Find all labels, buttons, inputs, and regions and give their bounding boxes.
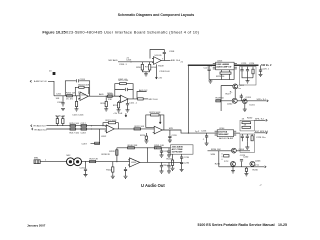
svg-text:C217: C217 — [81, 123, 87, 125]
ground in box — [247, 78, 249, 81]
resistor R211 body — [120, 83, 127, 85]
svg-text:7052A AMP: 7052A AMP — [218, 133, 229, 136]
svg-text:MK1: MK1 — [34, 157, 39, 159]
svg-text:SPK: SPK — [169, 128, 174, 130]
svg-text:C234: C234 — [162, 165, 168, 167]
wire EXT out — [254, 119, 265, 121]
ground below R236 — [244, 174, 248, 176]
svg-text:C201: C201 — [56, 94, 62, 96]
ground below R242 — [111, 176, 115, 178]
ground below R212 — [117, 110, 121, 112]
wire lower row — [219, 166, 248, 168]
wire U201B output — [128, 92, 146, 99]
resistor R216 inline upper — [70, 125, 76, 127]
svg-text:AUDIO AMP 1W: AUDIO AMP 1W — [216, 65, 231, 68]
wire jack to opamp — [82, 161, 130, 163]
svg-text:U Audio Out: U Audio Out — [141, 183, 165, 188]
resistor R221 body — [108, 122, 115, 124]
ground below rail — [144, 74, 148, 76]
transistor Q203 inner — [244, 100, 246, 103]
svg-text:SW B+ 2: SW B+ 2 — [261, 63, 272, 67]
op-amp U202A — [105, 125, 115, 133]
wire U202B output — [162, 130, 217, 133]
node junction lower — [91, 128, 92, 129]
node junction top rail — [147, 147, 148, 148]
svg-text:AUD 9-2: AUD 9-2 — [139, 89, 148, 92]
svg-text:Q201: Q201 — [239, 85, 245, 87]
svg-text:C202: C202 — [57, 102, 63, 104]
transistor Q202 inner — [234, 99, 236, 103]
capacitor C221 branch from bus — [208, 65, 210, 69]
resistor R235 body — [224, 155, 229, 157]
resistor R221 feedback — [103, 123, 118, 129]
resistor R204 body — [79, 86, 84, 88]
wire R207 R208 bottom rail — [142, 70, 149, 74]
resistor R208 branch — [149, 62, 151, 65]
svg-text:C218: C218 — [81, 133, 87, 135]
capacitor C232 body — [124, 169, 127, 176]
resistor R232 in box — [242, 126, 251, 128]
svg-text:SPK- 9-2: SPK- 9-2 — [255, 118, 265, 120]
wire top rail vertical — [116, 148, 118, 162]
op-amp U201B — [119, 95, 128, 102]
capacitor C239 branch — [240, 94, 242, 101]
svg-text:R208: R208 — [151, 67, 157, 69]
ground below C202 — [61, 108, 65, 110]
transistor Q203 — [243, 99, 248, 104]
capacitor C210 inner loop — [115, 89, 133, 91]
wire U201C output — [161, 60, 170, 62]
transistor Q206 — [250, 161, 255, 166]
svg-text:R217 100: R217 100 — [70, 133, 80, 135]
svg-text:023-5800-480/485 User Interfac: 023-5800-480/485 User Interface Board Sc… — [66, 29, 200, 34]
node MIC_HI input arrow — [30, 80, 31, 82]
wire Q203 to ground — [244, 104, 246, 109]
ground below R224 — [144, 141, 148, 143]
svg-text:MIC 10-6: MIC 10-6 — [149, 99, 159, 101]
svg-text:10K: 10K — [56, 98, 60, 100]
svg-text:Schematic Diagrams and Compone: Schematic Diagrams and Component Layouts — [118, 13, 194, 17]
svg-text:C206 .1: C206 .1 — [119, 64, 127, 66]
capacitor C239 body — [240, 96, 243, 97]
svg-text:A MIC HI 1-8: A MIC HI 1-8 — [34, 80, 47, 83]
resistor R226 inline — [216, 100, 221, 102]
ground below R203 — [75, 109, 79, 111]
wire branch down — [91, 129, 100, 143]
capacitor C237 body — [160, 151, 163, 155]
transistor Q202 — [232, 98, 237, 103]
svg-text:1K .5%: 1K .5% — [66, 99, 73, 101]
capacitor C236 body — [180, 162, 183, 169]
svg-text:R238 2K: R238 2K — [102, 154, 111, 156]
resistor R229 in box — [252, 69, 254, 74]
IC U204 pins — [215, 131, 237, 135]
resistor R203 branch — [76, 96, 78, 101]
svg-text:R237 2K: R237 2K — [90, 158, 99, 160]
wire SW_B+ bus — [189, 64, 259, 66]
svg-text:C235: C235 — [184, 157, 190, 159]
node junction upper — [91, 125, 92, 126]
resistor R242 branch — [112, 162, 114, 167]
svg-text:Figure 10.25: Figure 10.25 — [42, 29, 66, 34]
capacitor C230 left — [241, 162, 243, 167]
ground below C232 — [124, 176, 128, 178]
svg-text:SPK+ 9-1: SPK+ 9-1 — [257, 99, 267, 101]
svg-text:R234 10K: R234 10K — [211, 149, 221, 151]
wire R213 to net — [143, 98, 148, 100]
svg-text:U201D: U201D — [155, 55, 162, 57]
svg-text:AUDIO PA 8W: AUDIO PA 8W — [219, 137, 234, 140]
component MK201 inner dot — [69, 160, 72, 163]
svg-text:Q202: Q202 — [227, 104, 233, 106]
capacitor C208 feedback loop — [150, 50, 164, 59]
capacitor C223 in box — [242, 67, 253, 78]
node junction dot — [106, 96, 107, 97]
capacitor C224 in box — [247, 67, 249, 78]
transistor Q201 — [233, 84, 238, 89]
capacitor C225 outside — [260, 65, 262, 69]
wire bus drop long vertical — [188, 65, 190, 133]
resistor R208 body — [149, 64, 151, 70]
wire U205 output — [140, 161, 182, 163]
ground in filter box — [246, 141, 248, 147]
wire shutdown row — [208, 150, 251, 152]
capacitor C234 branch — [168, 162, 170, 165]
wire Q205 ground — [232, 167, 234, 171]
resistor R212 stub — [118, 108, 120, 110]
IC U203 audio PA box — [216, 62, 235, 70]
svg-text:C220: C220 — [172, 135, 178, 137]
capacitor C238 branch — [161, 162, 163, 165]
node TP201 pad — [53, 72, 56, 75]
ground below C211 — [126, 110, 130, 112]
capacitor C233 top branch — [168, 148, 170, 151]
op-amp U205 — [128, 158, 140, 167]
svg-text:C203: C203 — [80, 79, 86, 81]
wire bottom rail — [209, 70, 234, 80]
capacitor C227 body — [241, 136, 244, 141]
wire MIC_HI to corner — [48, 81, 54, 96]
svg-text:R239: R239 — [109, 151, 115, 153]
resistor R243 below box — [171, 160, 173, 165]
capacitor C221 body — [208, 69, 211, 79]
ground at rail — [209, 80, 211, 81]
resistor R205 inline — [107, 95, 112, 97]
svg-text:C228 10u: C228 10u — [256, 137, 266, 139]
resistor R202 body — [67, 95, 73, 97]
resistor R225 body — [220, 72, 231, 74]
dashed link U204 — [221, 153, 223, 160]
svg-text:+5V: +5V — [158, 78, 162, 80]
resistor R224 branch — [145, 133, 147, 136]
capacitor C228 body — [246, 136, 249, 141]
node out arrow right — [267, 100, 268, 102]
svg-text:RX AUD 8-3: RX AUD 8-3 — [34, 125, 47, 128]
svg-text:R225 10: R225 10 — [216, 76, 225, 78]
ground below C226 — [205, 143, 209, 145]
wire pair lower — [46, 128, 106, 130]
ground below C231 — [84, 175, 88, 177]
component MK202 mic element right — [74, 158, 82, 166]
box resistor pack — [240, 120, 254, 131]
wire U201B lower input — [118, 101, 120, 102]
resistor R220 inline branch — [95, 142, 100, 144]
node lower arrow — [266, 132, 267, 134]
ground below C234 — [167, 171, 171, 173]
component MK202 inner dot — [76, 160, 79, 163]
capacitor C203 feedback outer loop — [65, 81, 89, 96]
resistor R211 feedback loop — [115, 84, 133, 99]
resistor R242 stub — [112, 172, 114, 176]
svg-text:C221: C221 — [204, 68, 210, 70]
svg-text:R228 10: R228 10 — [216, 97, 225, 99]
op-amp U201C — [152, 57, 161, 65]
svg-text:C230: C230 — [243, 157, 249, 159]
resistor R215 stub — [62, 117, 65, 126]
svg-text:DTC: DTC — [224, 161, 229, 163]
resistor R206 stub — [105, 107, 107, 109]
node junction top rail2 — [156, 147, 157, 148]
ground below Q203 — [243, 109, 247, 111]
wire U202A output — [114, 128, 154, 130]
svg-text:R223 100K: R223 100K — [150, 112, 161, 114]
svg-text:C211 .1: C211 .1 — [129, 102, 137, 104]
svg-text:U202: U202 — [101, 136, 107, 138]
transistor Q201 inner — [234, 85, 236, 89]
svg-text:U201: U201 — [81, 95, 87, 97]
transistor Q204 inner — [233, 149, 235, 152]
capacitor C224 body — [246, 70, 249, 71]
ground below C225 — [259, 74, 263, 76]
capacitor C220 body — [168, 136, 171, 140]
resistor R222 inline — [134, 128, 141, 130]
resistor R213 inline — [138, 98, 144, 100]
transistor Q205 — [231, 162, 236, 167]
svg-text:R202 10K: R202 10K — [66, 92, 76, 94]
svg-text:SDN: SDN — [211, 154, 216, 156]
capacitor C227 in box — [241, 134, 243, 136]
svg-text:R243: R243 — [167, 159, 173, 161]
svg-text:C225 .1: C225 .1 — [262, 69, 270, 71]
resistor R239 on vertical — [116, 150, 118, 155]
ground symbol filter — [245, 147, 249, 149]
capacitor C202 branch — [62, 96, 64, 102]
svg-text:16 PIN SMT: 16 PIN SMT — [172, 152, 184, 154]
transistor Q206 inner — [251, 162, 253, 166]
wire Q206 row — [248, 165, 264, 167]
svg-text:R209: R209 — [158, 65, 164, 67]
svg-text:R205: R205 — [107, 93, 113, 95]
capacitor C237 top branch — [161, 148, 163, 151]
svg-text:January 2007: January 2007 — [27, 223, 46, 227]
capacitor C231 body — [84, 169, 87, 174]
svg-text:C206: C206 — [126, 59, 132, 61]
wire pair upper — [46, 125, 106, 127]
wire to Q201 — [221, 86, 233, 112]
component FL201 mic filter — [34, 160, 40, 164]
svg-text:R221 100K: R221 100K — [106, 120, 117, 122]
svg-text:PTT: PTT — [255, 165, 260, 167]
capacitor C226 branch — [206, 133, 208, 135]
wire R236 ground — [245, 167, 247, 174]
op-amp U202B — [153, 126, 163, 134]
svg-text:C223: C223 — [241, 63, 247, 65]
resistor R214 pullup body — [56, 119, 58, 124]
resistor R233 in box — [251, 136, 253, 141]
supply arrow mid — [125, 113, 127, 117]
resistor R237 inline — [90, 161, 96, 163]
capacitor C233 body — [167, 151, 170, 155]
capacitor C202 body — [61, 103, 64, 107]
resistor R231 in box — [242, 122, 251, 124]
ground below C237 — [160, 155, 164, 157]
wire emitter row — [216, 89, 267, 101]
svg-text:C224: C224 — [249, 63, 255, 65]
resistor R236 branch — [245, 168, 247, 171]
wire top feedback rail — [117, 147, 171, 149]
svg-text:R227: R227 — [226, 93, 232, 95]
svg-text:R207: R207 — [136, 67, 142, 69]
svg-text:MIC: MIC — [67, 155, 71, 157]
resistor R219 inline lower2 — [81, 128, 87, 130]
wire MIC_AUD rail — [118, 61, 154, 63]
svg-text:C233: C233 — [163, 151, 169, 153]
wire U1A output — [88, 95, 120, 97]
resistor R223 body — [151, 114, 159, 116]
capacitor C231 branch — [85, 162, 87, 169]
ground below Q205 — [231, 171, 235, 173]
capacitor C211 body — [126, 104, 129, 110]
svg-text:Q204: Q204 — [239, 149, 245, 151]
ground symbol box — [246, 81, 250, 83]
svg-text:U203: U203 — [217, 61, 223, 63]
svg-text:Q203: Q203 — [246, 97, 252, 99]
ground below R206 — [104, 109, 108, 111]
resistor R206 branch — [105, 96, 107, 101]
svg-text:R222 10K: R222 10K — [135, 126, 145, 128]
node VOL_LO arrow — [32, 128, 33, 130]
power arrow below U201C — [156, 64, 158, 79]
capacitor C220 branch — [169, 130, 171, 136]
ground below C220 — [168, 140, 172, 142]
capacitor C235 below box — [181, 154, 183, 156]
resistor R223 feedback loop — [146, 115, 164, 130]
component MK201 mic element left — [67, 158, 75, 166]
svg-text:RX AUD 8-4: RX AUD 8-4 — [35, 128, 48, 131]
capacitor C223 body — [240, 70, 243, 71]
resistor R207 body — [141, 64, 143, 70]
resistor R242 body — [112, 167, 114, 172]
resistor R240 inline top — [128, 147, 135, 149]
capacitor C238 body — [160, 166, 163, 171]
supply arrow U202B — [159, 115, 161, 124]
capacitor C210 body — [125, 88, 127, 91]
wire branch down — [218, 151, 220, 167]
capacitor C225 body — [259, 70, 262, 74]
box output filter — [240, 134, 255, 152]
svg-text:R211 33K: R211 33K — [119, 80, 129, 82]
svg-text:C208: C208 — [169, 51, 175, 53]
svg-text:+5V 10-8: +5V 10-8 — [113, 113, 123, 115]
node lower arrow — [265, 166, 266, 168]
node junction mic — [85, 161, 86, 162]
resistor R218 inline upper2 — [81, 125, 87, 127]
svg-text:AUD 10-4: AUD 10-4 — [171, 59, 181, 62]
transistor Q204 — [232, 148, 237, 153]
resistor R214 stub — [56, 117, 59, 126]
capacitor C203 body — [76, 79, 78, 82]
resistor R243 stub — [172, 154, 174, 168]
wire box out lower — [254, 132, 265, 134]
svg-text:R242: R242 — [106, 169, 112, 171]
IC U204 box — [217, 130, 233, 137]
resistor R203 body — [75, 101, 77, 106]
resistor R217 inline lower — [70, 128, 76, 130]
svg-text:C236: C236 — [184, 162, 190, 164]
resistor R215 pullup body — [62, 119, 64, 124]
wire U204 output — [234, 132, 240, 134]
svg-text:R240 33K: R240 33K — [128, 145, 138, 147]
ground symbol rail — [208, 81, 212, 83]
node junction input — [116, 161, 117, 162]
svg-text:R206: R206 — [101, 103, 107, 105]
node junction with bus drop — [188, 133, 189, 134]
svg-text:D201: D201 — [250, 105, 256, 107]
op-amp U201A — [79, 92, 89, 101]
wire into U201B — [112, 95, 120, 97]
resistor R207 branch — [141, 62, 143, 65]
svg-text:R216 100: R216 100 — [70, 123, 80, 125]
svg-text:33K: 33K — [108, 99, 112, 101]
svg-text:R236: R236 — [253, 170, 259, 172]
resistor R225 below IC — [222, 70, 230, 72]
node junction dot on MIC_AUD — [130, 61, 131, 62]
svg-text:C231: C231 — [80, 168, 86, 170]
svg-text:R204 100K: R204 100K — [78, 85, 89, 87]
svg-text:C209 10-8: C209 10-8 — [159, 71, 170, 73]
ground below C233 — [167, 155, 171, 157]
svg-text:AUD: AUD — [99, 93, 104, 96]
capacitor C208 body — [163, 52, 166, 60]
ground below R243 — [171, 168, 175, 170]
svg-text:5100 ES Series Portable Radio: 5100 ES Series Portable Radio Service Ma… — [198, 223, 275, 227]
ground below C238 — [160, 171, 164, 173]
resistor R229 stubs — [252, 67, 254, 78]
svg-text:U205: U205 — [131, 162, 137, 164]
resistor R206 body — [105, 101, 107, 106]
resistor R224 stub — [145, 139, 147, 140]
svg-text:Q206: Q206 — [255, 160, 261, 162]
resistor R204 feedback inner loop — [75, 87, 89, 96]
svg-text:C215 C216: C215 C216 — [72, 114, 84, 116]
svg-text:R230: R230 — [247, 118, 253, 120]
svg-text:R235: R235 — [215, 163, 221, 165]
svg-text:EXT SPK 9-4: EXT SPK 9-4 — [255, 131, 269, 133]
resistor R203 stub to ground — [76, 107, 78, 109]
wire mic to jack — [40, 161, 66, 163]
resistor R241 inline top2 — [154, 147, 161, 149]
wire input rail to U1A — [54, 95, 80, 97]
resistor R233 stub — [251, 134, 253, 136]
IC U203 pins right — [234, 64, 237, 69]
connector J201 box — [171, 145, 194, 154]
svg-text:C219: C219 — [82, 143, 88, 145]
capacitor C232 branch — [125, 167, 127, 169]
capacitor C226 body — [205, 136, 208, 143]
svg-text:R212: R212 — [113, 105, 119, 107]
capacitor C234 body — [167, 166, 170, 171]
component FL201 inner — [35, 160, 39, 164]
